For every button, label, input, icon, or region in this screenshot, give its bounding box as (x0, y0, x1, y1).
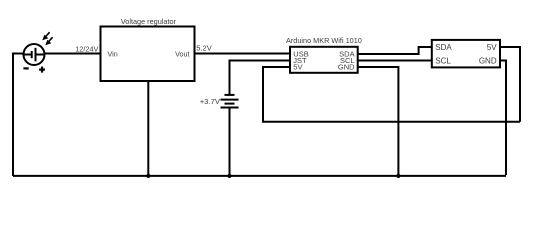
voltage regulator U1 (101, 27, 195, 82)
svg-text:GND: GND (479, 56, 497, 65)
junction: battery ground (227, 174, 231, 178)
svg-text:+3.7V: +3.7V (200, 97, 221, 106)
wire: Arduino SDA to sensor SDA (358, 47, 432, 54)
ground rail (13, 175, 506, 177)
wire: Arduino SCL to sensor SCL (358, 60, 432, 62)
svg-text:Voltage regulator: Voltage regulator (121, 17, 177, 26)
svg-text:Vout: Vout (175, 50, 189, 59)
svg-text:5.2V: 5.2V (196, 43, 211, 52)
wire: battery negative to ground rail (229, 108, 231, 177)
svg-text:SCL: SCL (435, 56, 451, 65)
wire: regulator Vout to Arduino USB (195, 53, 291, 55)
op module U2 Arduino MKR Wifi 1010 (290, 47, 358, 73)
junction: Arduino ground (396, 174, 400, 178)
wire: sensor 5V down to loop (500, 47, 520, 122)
light arrow 1 (42, 32, 49, 40)
wire: PV left lead to ground rail (13, 54, 24, 177)
svg-text:5V: 5V (487, 43, 497, 52)
wire: regulator bottom to ground rail (147, 81, 149, 176)
svg-text:SDA: SDA (435, 43, 452, 52)
light arrow 2 (45, 37, 52, 45)
solar cell PV1 (24, 44, 45, 65)
polarity label plus (39, 67, 45, 73)
wire: PV to regulator Vin (44, 53, 101, 55)
svg-text:5V: 5V (293, 63, 302, 72)
battery BT1 +3.7V (221, 95, 239, 108)
wire: Arduino GND to ground rail (358, 67, 399, 176)
svg-text:Vin: Vin (108, 50, 118, 59)
sensor module U3 (432, 40, 500, 68)
svg-text:12/24V: 12/24V (75, 44, 98, 53)
wire: Arduino 5V loop to sensor 5V feed (263, 67, 520, 122)
svg-text:Arduino MKR Wifi 1010: Arduino MKR Wifi 1010 (286, 36, 362, 45)
svg-text:GND: GND (338, 63, 355, 72)
junction: regulator ground (146, 174, 150, 178)
wire: battery to Arduino JST (230, 61, 291, 95)
wire: sensor GND to ground rail (500, 61, 506, 176)
polarity label minus (23, 67, 28, 69)
